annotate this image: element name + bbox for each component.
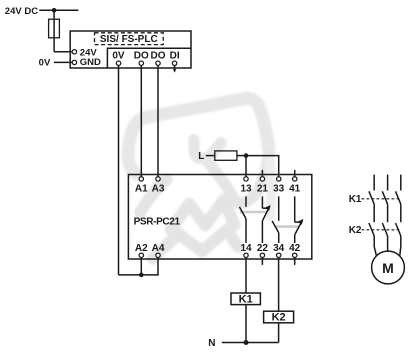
svg-text:A1: A1: [135, 183, 148, 194]
svg-text:N: N: [208, 338, 215, 349]
svg-text:33: 33: [273, 183, 285, 194]
svg-text:K1: K1: [239, 293, 253, 305]
svg-text:0V: 0V: [39, 57, 51, 68]
svg-text:A4: A4: [152, 243, 165, 254]
svg-text:41: 41: [289, 183, 301, 194]
svg-text:SIS/ FS-PLC: SIS/ FS-PLC: [100, 34, 158, 45]
svg-text:L: L: [198, 151, 204, 162]
svg-text:0V: 0V: [112, 51, 125, 62]
svg-text:K2: K2: [349, 225, 362, 236]
svg-text:21: 21: [257, 183, 269, 194]
svg-text:24V DC: 24V DC: [5, 6, 38, 17]
svg-text:DI: DI: [170, 51, 180, 62]
svg-text:14: 14: [240, 243, 252, 254]
svg-text:22: 22: [257, 243, 269, 254]
svg-text:M: M: [382, 260, 394, 276]
svg-text:DO: DO: [151, 51, 166, 62]
svg-text:A2: A2: [135, 243, 148, 254]
svg-text:K1: K1: [349, 194, 362, 205]
svg-text:K2: K2: [272, 312, 286, 324]
svg-text:42: 42: [289, 243, 301, 254]
svg-text:GND: GND: [80, 57, 101, 68]
svg-text:DO: DO: [134, 51, 149, 62]
svg-text:A3: A3: [152, 183, 165, 194]
svg-text:PSR-PC21: PSR-PC21: [134, 216, 181, 227]
svg-text:34: 34: [273, 243, 285, 254]
svg-text:13: 13: [240, 183, 252, 194]
